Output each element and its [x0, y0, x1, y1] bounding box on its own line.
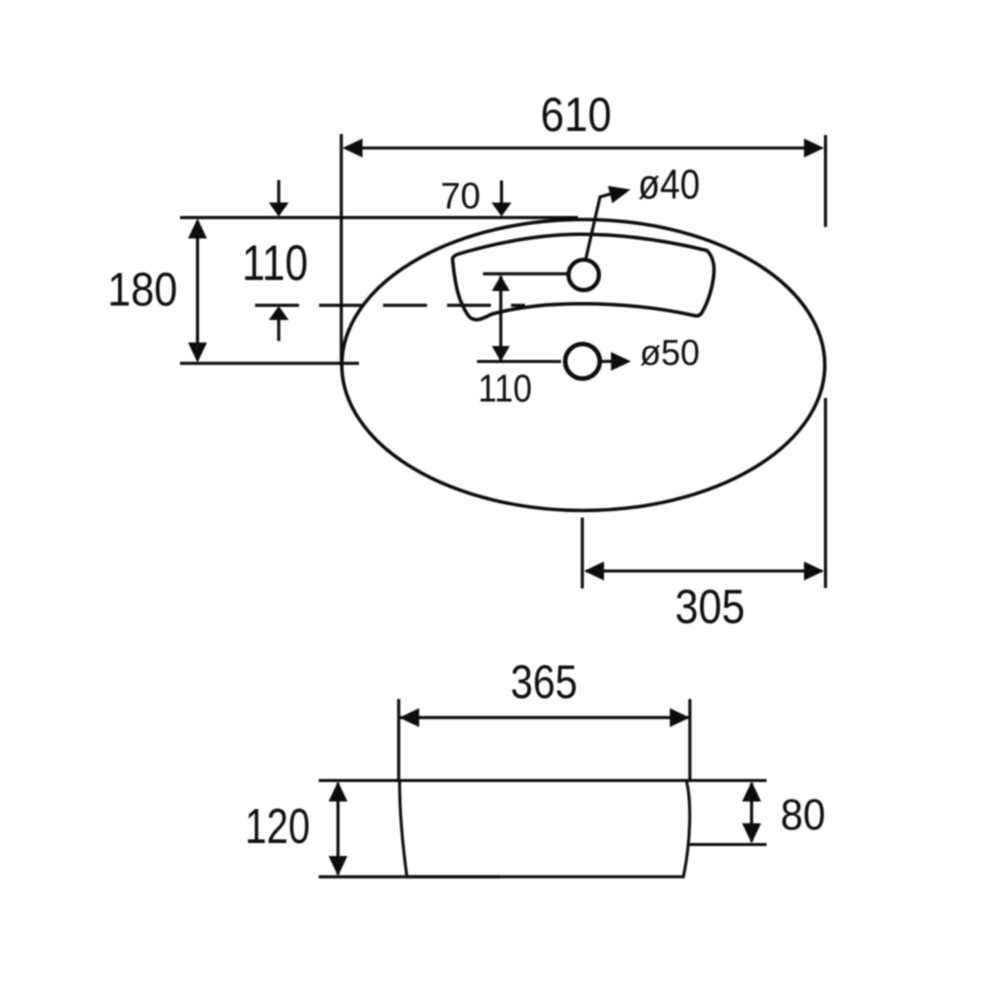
svg-text:110: 110 — [242, 235, 308, 291]
svg-text:180: 180 — [108, 263, 178, 316]
svg-text:610: 610 — [541, 89, 612, 142]
svg-text:365: 365 — [511, 656, 578, 709]
svg-text:110: 110 — [478, 368, 532, 411]
svg-text:305: 305 — [675, 581, 745, 634]
svg-text:ø40: ø40 — [638, 161, 700, 208]
svg-text:80: 80 — [781, 791, 826, 839]
svg-text:70: 70 — [441, 176, 481, 217]
svg-text:120: 120 — [245, 800, 310, 854]
svg-text:ø50: ø50 — [640, 332, 700, 373]
